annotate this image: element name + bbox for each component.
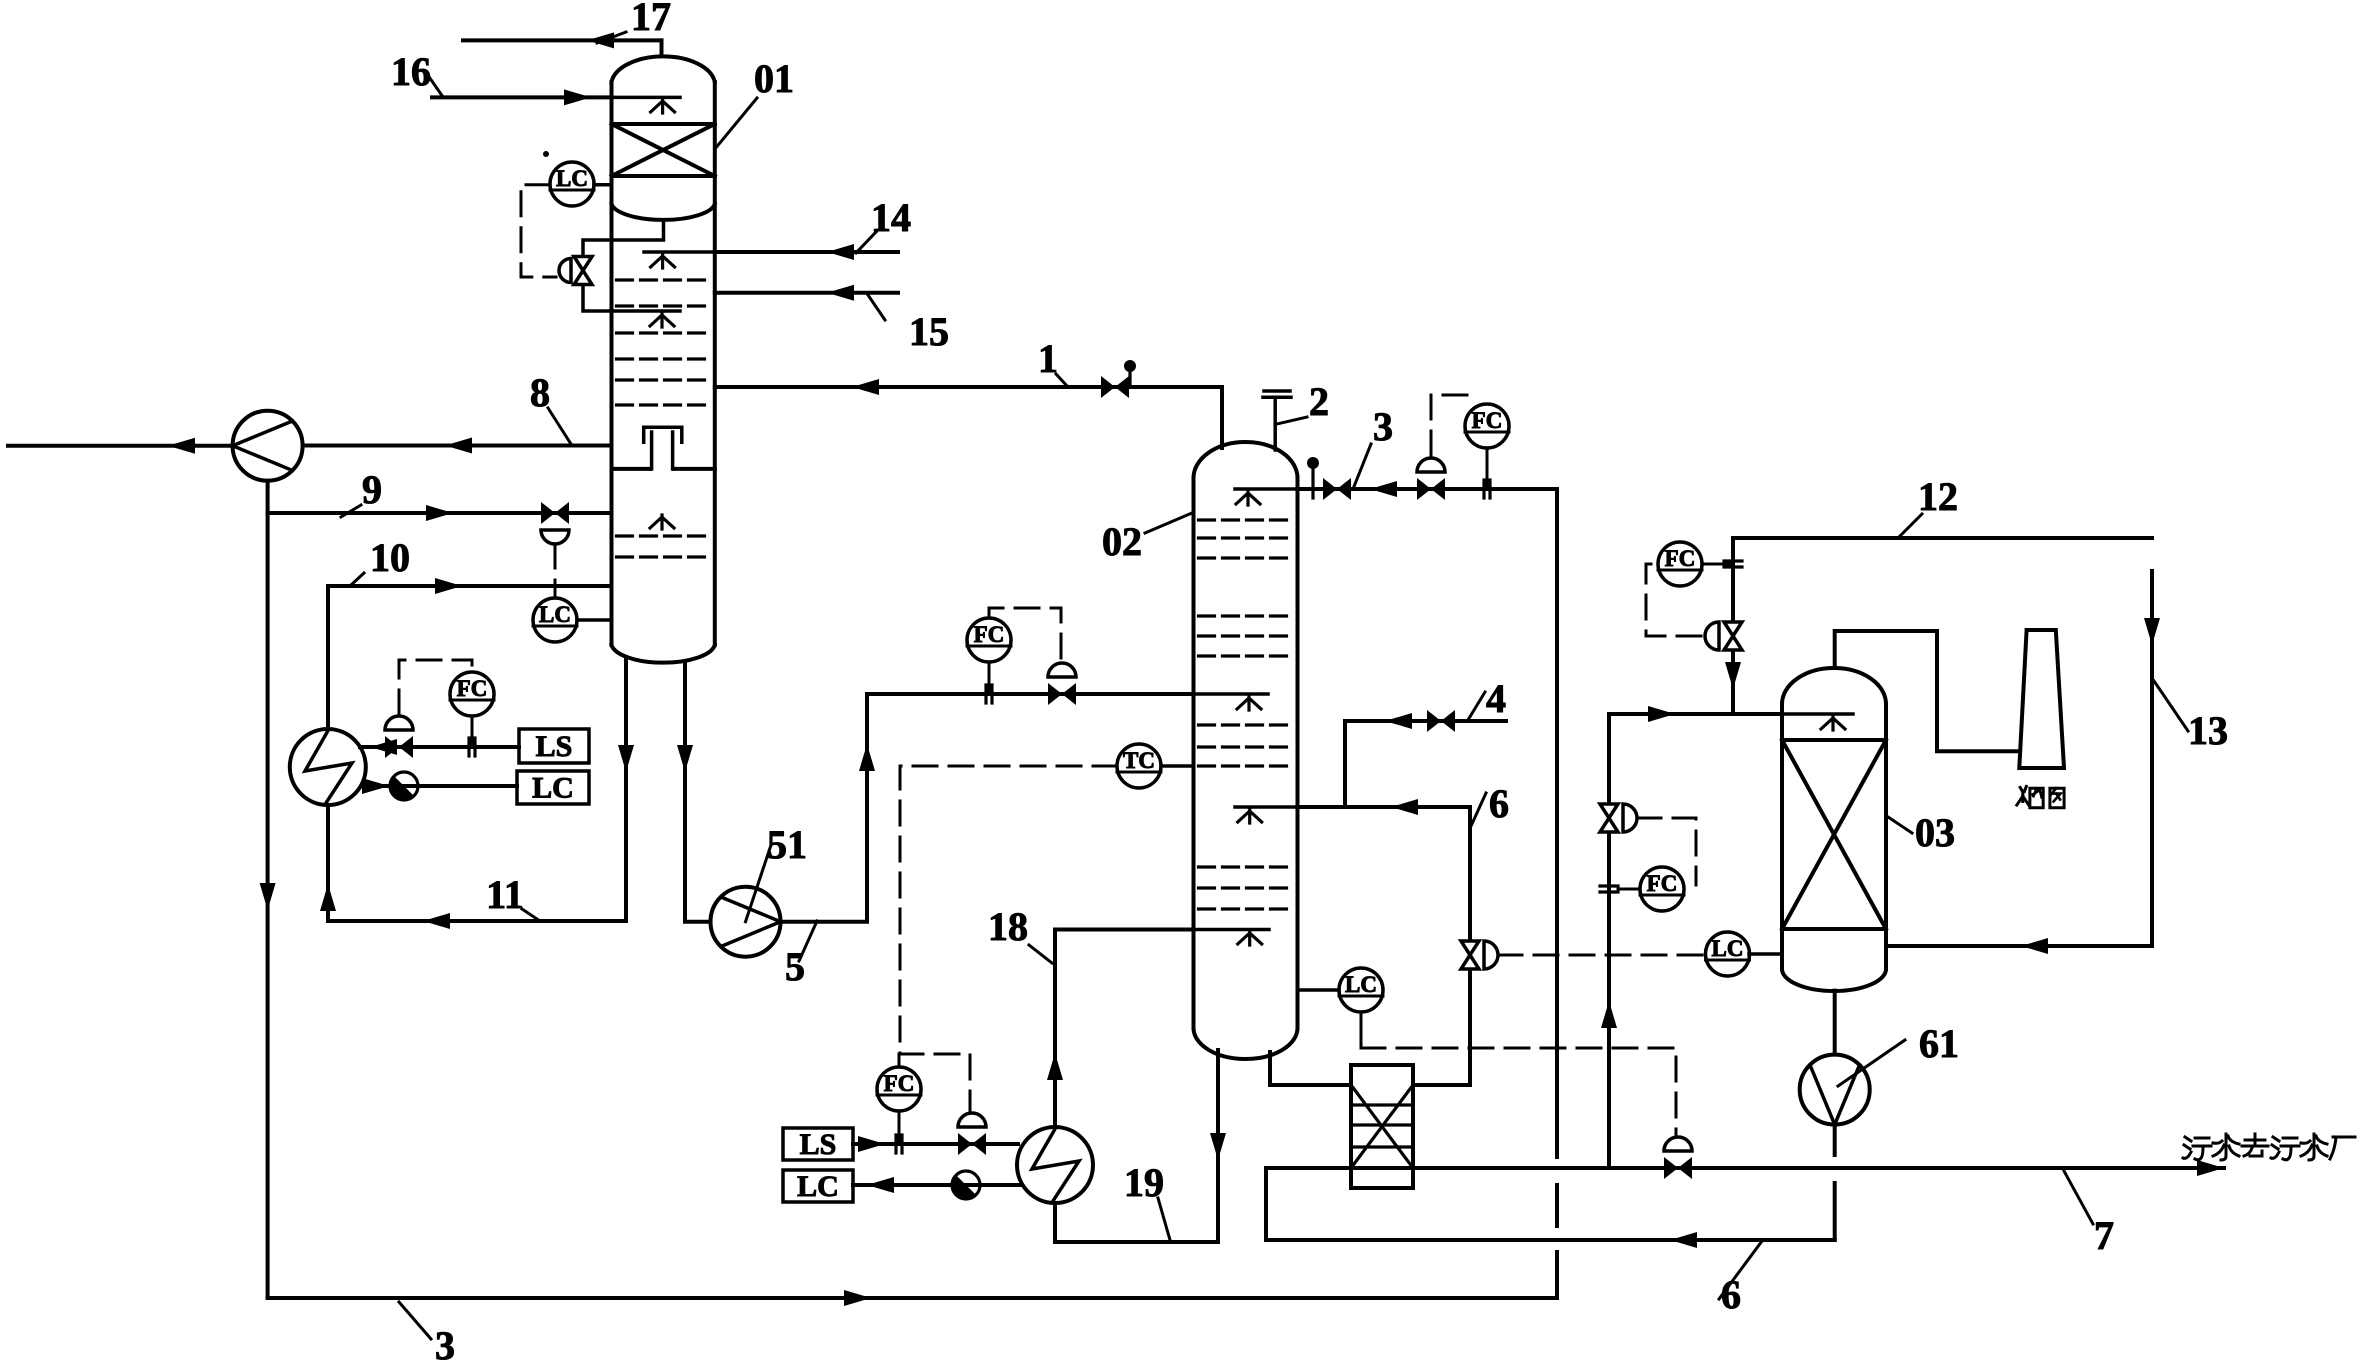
column 01 top spray nozzle bbox=[651, 99, 675, 113]
control valve on line 9 bbox=[541, 502, 569, 524]
wire line 12 bbox=[1733, 536, 2152, 540]
svg-text:7: 7 bbox=[2094, 1213, 2114, 1258]
svg-text:6: 6 bbox=[1489, 781, 1509, 826]
svg-text:FC: FC bbox=[884, 1071, 915, 1096]
dome actuator valve3 bbox=[1417, 458, 1445, 472]
pump P1 reflux pump bbox=[233, 411, 303, 481]
column 02 tray 9 (dashed) bbox=[1199, 764, 1293, 767]
svg-text:2: 2 bbox=[1309, 379, 1329, 424]
label 14 bbox=[856, 195, 911, 253]
box LS for E2 bbox=[783, 1128, 853, 1161]
svg-text:13: 13 bbox=[2188, 708, 2228, 753]
wire line 7 wastewater run bbox=[1266, 1166, 2224, 1170]
flow controller FC12 bbox=[1658, 542, 1702, 586]
column 02 tray 8 (dashed) bbox=[1199, 745, 1293, 748]
column 02 mid distributor bbox=[1194, 692, 1269, 696]
arrow condensate E2 bbox=[867, 1177, 894, 1193]
column 01 tray 8 (dashed) bbox=[617, 555, 710, 558]
wire valve12 drop leg bbox=[1731, 538, 1735, 714]
orifice tick line5 bbox=[986, 685, 992, 703]
flow controller FC1 bbox=[450, 672, 494, 716]
column 02 tray 11 (dashed) bbox=[1199, 886, 1293, 889]
dome actuator on steam valve E1 bbox=[385, 716, 413, 730]
column 02 bottom head bbox=[1194, 1028, 1298, 1059]
steam control valve E1 bbox=[385, 736, 413, 758]
hand valve on line 1 bbox=[1101, 376, 1129, 398]
label 9 bbox=[341, 467, 382, 517]
label 02 bbox=[1102, 513, 1192, 564]
wire FC riser stem bbox=[1618, 888, 1640, 891]
wire line 6 return from pump61 bbox=[1266, 1238, 1835, 1242]
spray line 6 feed bbox=[1238, 809, 1262, 823]
spray in reactor bbox=[1821, 716, 1845, 730]
wire FC3 stem bbox=[1486, 448, 1489, 489]
arrow on line 17 bbox=[587, 32, 614, 48]
spray below line 9 inside column bbox=[650, 515, 674, 529]
orifice tick line3 bbox=[1484, 480, 1490, 498]
arrow up into E1 bbox=[320, 884, 336, 911]
wire line 9 bbox=[268, 511, 612, 515]
level controller LC2 on column 01 bbox=[533, 598, 577, 642]
wire line 6 into column bbox=[1298, 805, 1471, 809]
column 01 shell walls bbox=[612, 82, 715, 645]
svg-text:16: 16 bbox=[391, 49, 431, 94]
wire line 18 riser bbox=[1055, 930, 1194, 1128]
reactor 03 top dome bbox=[1782, 668, 1886, 704]
column 01 tray 2 (dashed) bbox=[617, 304, 710, 307]
flow controller FC2 reboiler bbox=[877, 1067, 921, 1111]
reflux pipe from collector bbox=[583, 221, 664, 254]
wire line 3 into column 02 bbox=[1298, 487, 1558, 491]
column 01 packing bed with X bbox=[612, 124, 715, 176]
arrow down left leg bbox=[618, 745, 634, 772]
label 03 bbox=[1888, 810, 1955, 855]
svg-text:03: 03 bbox=[1915, 810, 1955, 855]
wire line 10 reboiler return bbox=[328, 586, 612, 729]
vent stem with ball on line 1 bbox=[1124, 360, 1136, 387]
column 01 tray 5 (dashed) bbox=[617, 378, 710, 381]
svg-text:LS: LS bbox=[536, 730, 573, 763]
wire FC12 stem bbox=[1702, 563, 1733, 566]
wire line 1 (column02 overhead to column01) bbox=[715, 387, 1222, 448]
label 51 bbox=[746, 822, 808, 922]
level controller LC1 on column 01 bbox=[550, 162, 594, 206]
wire reactor bottoms to pump61 bbox=[1833, 991, 1837, 1054]
column 02 tray 10 (dashed) bbox=[1199, 865, 1293, 868]
label 18 bbox=[988, 904, 1052, 963]
control valve line 5 bbox=[1048, 683, 1076, 705]
dashed signal valve9 to LC2 bbox=[554, 544, 557, 597]
control valve line 12 leg bbox=[1724, 622, 1742, 650]
column 02 tray 5 (dashed) bbox=[1199, 634, 1293, 637]
pump 61 reactor bottoms pump bbox=[1800, 1055, 1870, 1125]
arrow up line 18 bbox=[1047, 1053, 1063, 1080]
control valve line 3 bbox=[1417, 478, 1445, 500]
svg-text:11: 11 bbox=[486, 872, 524, 917]
wire line 7 start elbow bbox=[1264, 1168, 1268, 1240]
svg-text:FC: FC bbox=[1647, 871, 1678, 896]
reactor 03 packing bed bbox=[1782, 740, 1886, 929]
box LC for E1 bbox=[517, 771, 589, 805]
text wushui qu wushuichang bbox=[2183, 1134, 2355, 1160]
column 02 lower distributor bbox=[1235, 805, 1298, 809]
label 3 top bbox=[1353, 404, 1393, 489]
column 01 tray 7 (dashed) bbox=[617, 534, 710, 537]
arrow on line 3 top bbox=[1370, 481, 1397, 497]
label 12 bbox=[1898, 474, 1958, 538]
wire FC2 stem to orifice bbox=[898, 1111, 901, 1144]
wire FC2 stem up bbox=[898, 1054, 901, 1067]
reflux pipe to distributor bbox=[583, 288, 612, 312]
steam trap half ball E2 bbox=[952, 1171, 980, 1199]
wire reboiler E1 bottom leg bbox=[326, 805, 330, 921]
label 61 bbox=[1838, 1021, 1959, 1086]
column 01 tray 6 (dashed) bbox=[617, 403, 710, 406]
column 02 tray 7 (dashed) bbox=[1199, 723, 1293, 726]
arrow on line 14 bbox=[827, 244, 854, 260]
wire line 19 bottoms to reboiler bbox=[1055, 1050, 1218, 1242]
column 01 tray 3 (dashed) bbox=[617, 331, 710, 334]
svg-text:LC: LC bbox=[556, 166, 588, 191]
hand valve line 4 bbox=[1427, 710, 1455, 732]
svg-text:TC: TC bbox=[1123, 748, 1155, 773]
column 02 shell walls bbox=[1194, 478, 1298, 1028]
arrow up riser 1609 bbox=[1601, 1001, 1617, 1028]
column 01 chimney riser bbox=[652, 432, 673, 469]
control valve on line 6 riser bbox=[1461, 941, 1479, 969]
column 02 reboiler return distributor bbox=[1194, 928, 1270, 932]
column 01 reflux internal pipe bbox=[612, 309, 681, 313]
svg-text:15: 15 bbox=[909, 309, 949, 354]
wire line 11 bbox=[328, 919, 626, 923]
svg-text:LS: LS bbox=[800, 1128, 837, 1161]
dashed signal FC1 loop bbox=[399, 660, 472, 714]
svg-text:51: 51 bbox=[767, 822, 807, 867]
column 01 top dome bbox=[612, 56, 715, 82]
arrow down line 13 bbox=[2144, 618, 2160, 645]
box LS for E1 bbox=[519, 729, 589, 763]
arrow steam into E1 bbox=[370, 739, 397, 755]
svg-text:LC: LC bbox=[797, 1170, 839, 1203]
steam line LS to E1 bbox=[360, 745, 519, 749]
column 01 top distributor bbox=[612, 96, 681, 100]
steam control valve E2 bbox=[958, 1133, 986, 1155]
arrow steam E2 bbox=[858, 1136, 885, 1152]
reflux control valve bbox=[574, 257, 592, 285]
wire FC1 stem to orifice bbox=[471, 716, 474, 747]
pump 51 column02 feed pump bbox=[711, 887, 781, 957]
column 01 tray 1 (dashed) bbox=[617, 278, 710, 281]
dome actuator riser valve bbox=[1623, 804, 1637, 832]
svg-text:LC: LC bbox=[532, 772, 574, 805]
arrow on line 6 feed bbox=[1391, 799, 1418, 815]
flow controller FC riser bbox=[1640, 867, 1684, 911]
column 02 top distributor bbox=[1235, 487, 1298, 491]
svg-text:FC: FC bbox=[457, 676, 488, 701]
svg-text:17: 17 bbox=[631, 0, 671, 39]
riser of line 3 (with crossing gaps) bbox=[1555, 489, 1559, 1298]
column 01 feed-14 internal pipe bbox=[644, 250, 715, 254]
label 3 bottom bbox=[399, 1302, 455, 1368]
dashed TC signal bbox=[900, 766, 1117, 1112]
vent line 2 with flame arrestor bbox=[1263, 391, 1291, 450]
dome actuator valve12 bbox=[1705, 622, 1719, 650]
control valve on riser bbox=[1600, 804, 1618, 832]
wire LC reactor tap bbox=[1749, 952, 1782, 956]
sample point ball on line 3 bbox=[1307, 457, 1319, 498]
reactor 03 bottom head bbox=[1782, 969, 1886, 991]
column 02 tray 2 (dashed) bbox=[1199, 536, 1293, 539]
wire LC tap column02 bbox=[1298, 988, 1340, 992]
spray reboiler return bbox=[1238, 931, 1262, 945]
svg-text:01: 01 bbox=[754, 56, 794, 101]
reactor internal feed pipe bbox=[1782, 712, 1853, 716]
arrow on line 15 bbox=[827, 285, 854, 301]
svg-text:LC: LC bbox=[1712, 936, 1744, 961]
arrow down line 19 bbox=[1210, 1133, 1226, 1160]
arrow on line 7 end bbox=[2197, 1160, 2224, 1176]
arrow on reactor feed bbox=[1648, 706, 1675, 722]
label 16 bbox=[391, 49, 443, 97]
wire P1 discharge to left edge bbox=[8, 444, 233, 448]
svg-text:9: 9 bbox=[362, 467, 382, 512]
wire line 6 riser bbox=[1468, 807, 1472, 1085]
column 02 top dome bbox=[1194, 442, 1298, 478]
wire column02 bottoms to interchanger bbox=[1270, 1052, 1351, 1085]
wire line 14 bbox=[715, 250, 898, 254]
dashed signal LC reactor to valve6 bbox=[1498, 954, 1705, 957]
column 01 liquid collector bowl bbox=[612, 204, 715, 220]
arrow on line 3 bbox=[844, 1290, 871, 1306]
hand valve line 3 bbox=[1323, 478, 1351, 500]
orifice tick E2 bbox=[896, 1135, 902, 1153]
label 7 bbox=[2064, 1171, 2114, 1258]
dome actuator valve7 bbox=[1664, 1137, 1692, 1151]
label 10 bbox=[350, 535, 410, 586]
label 13 bbox=[2154, 681, 2228, 753]
orifice tick E1 steam bbox=[469, 738, 475, 756]
label 1 bbox=[1038, 336, 1068, 387]
label 8 bbox=[530, 370, 571, 444]
wire interchanger to line 6 riser bbox=[1413, 1083, 1470, 1087]
svg-text:12: 12 bbox=[1918, 474, 1958, 519]
svg-text:FC: FC bbox=[974, 622, 1005, 647]
dashed signal LC1 to reflux valve bbox=[521, 185, 556, 277]
column 01 left bottoms leg bbox=[624, 659, 628, 921]
wire line 4 bbox=[1345, 721, 1506, 807]
wire LC2 tap bbox=[577, 618, 612, 622]
arrow on line 8 bbox=[445, 438, 472, 454]
arrow down on P1 leg bbox=[260, 883, 276, 910]
arrow into reactor bbox=[2021, 938, 2048, 954]
label 01 bbox=[717, 56, 795, 147]
wire reactor offgas to chimney bbox=[1835, 631, 2018, 751]
column 02 tray 4 (dashed) bbox=[1199, 614, 1293, 617]
column 01 tray 4 (dashed) bbox=[617, 357, 710, 360]
arrow down valve12 leg bbox=[1725, 662, 1741, 689]
box LC for E2 bbox=[783, 1170, 853, 1203]
spray for line5 feed in column02 bbox=[1237, 696, 1261, 710]
column 01 chimney hat bbox=[644, 427, 682, 442]
column 01 spray on reflux return bbox=[650, 313, 674, 327]
dome actuator valve6 bbox=[1484, 941, 1498, 969]
wire line 5 riser bbox=[781, 694, 1194, 922]
column 02 tray 12 (dashed) bbox=[1199, 907, 1293, 910]
level controller LC column02 bbox=[1339, 968, 1383, 1012]
heat exchanger E1 reboiler bbox=[290, 729, 366, 805]
svg-text:4: 4 bbox=[1486, 676, 1506, 721]
flow controller FC3 bbox=[1465, 404, 1509, 448]
svg-text:02: 02 bbox=[1102, 519, 1142, 564]
dome actuator below valve 9 bbox=[541, 530, 569, 544]
wire LC stem down bbox=[1360, 1012, 1363, 1045]
wire TC tap bbox=[1161, 764, 1194, 768]
level controller LC reactor bbox=[1706, 932, 1750, 976]
orifice tick riser bbox=[1600, 886, 1618, 892]
temperature controller TC bbox=[1117, 744, 1161, 788]
wire LC1 tap to column bbox=[594, 183, 612, 187]
dashed signal FC5 to valve bbox=[989, 608, 1061, 661]
arrow condensate E1 bbox=[362, 778, 389, 794]
heat exchanger E2 reboiler column02 bbox=[1017, 1127, 1093, 1203]
svg-text:3: 3 bbox=[1373, 404, 1393, 449]
label 6 upper bbox=[1471, 781, 1509, 826]
wire line 16 feed bbox=[432, 95, 612, 99]
dome actuator steam valve E2 bbox=[958, 1113, 986, 1127]
svg-text:FC: FC bbox=[1665, 546, 1696, 571]
arrow down right leg bbox=[677, 745, 693, 772]
arrow on P1 discharge bbox=[168, 438, 195, 454]
svg-text:61: 61 bbox=[1919, 1021, 1959, 1066]
orifice tick line12 leg bbox=[1724, 561, 1742, 567]
label 5 bbox=[785, 921, 817, 989]
svg-text:LC: LC bbox=[539, 602, 571, 627]
dashed LC02 signal to line7 valve bbox=[1361, 1048, 1676, 1136]
wire line 3 bottom run bbox=[268, 1296, 1557, 1300]
condensate line E2 bbox=[853, 1183, 1022, 1187]
svg-text:18: 18 bbox=[988, 904, 1028, 949]
steam trap half ball E1 bbox=[390, 772, 418, 800]
column 01 right bottoms leg bbox=[683, 663, 687, 921]
svg-text:14: 14 bbox=[871, 195, 911, 240]
column 02 tray 6 (dashed) bbox=[1199, 654, 1293, 657]
condensate line E1 to LC box bbox=[362, 784, 517, 788]
wire P1 down leg bbox=[266, 481, 270, 1298]
column 01 bottom head bbox=[612, 645, 715, 663]
arrow up on line 5 bbox=[859, 744, 875, 771]
reflux valve actuator dome bbox=[559, 259, 571, 283]
label 2 bbox=[1277, 379, 1329, 424]
column 02 tray 1 (dashed) bbox=[1199, 518, 1293, 521]
svg-text:LC: LC bbox=[1345, 972, 1377, 997]
wire FC5 stem bbox=[988, 662, 991, 694]
column 01 spray below line 14 bbox=[651, 254, 675, 268]
arrow on line 1 bbox=[852, 379, 879, 395]
stray dot bbox=[543, 151, 549, 157]
label 17 bbox=[597, 0, 671, 43]
svg-text:FC: FC bbox=[1472, 408, 1503, 433]
arrow on line 4 bbox=[1385, 713, 1412, 729]
wire pump51 suction bbox=[685, 920, 711, 924]
dashed signal FC12 bbox=[1646, 564, 1701, 636]
arrow on line 10 bbox=[435, 578, 462, 594]
label 4 bbox=[1468, 676, 1506, 721]
label 11 bbox=[486, 872, 540, 921]
arrow on line 9 bbox=[426, 505, 453, 521]
wire line 8 bottoms draw bbox=[303, 444, 612, 448]
label 15 bbox=[868, 295, 949, 354]
wire reactor bottom return bbox=[1886, 944, 2152, 948]
control valve line 7 bbox=[1664, 1157, 1692, 1179]
column 02 tray 3 (dashed) bbox=[1199, 556, 1293, 559]
column 02 top spray bbox=[1236, 491, 1260, 505]
wire reactor feed line bbox=[1609, 712, 1782, 716]
text yancong chimney label bbox=[2017, 786, 2064, 807]
column 01 chimney tray floor bbox=[612, 467, 715, 471]
steam line LS2 to E2 bbox=[853, 1142, 1018, 1146]
dashed signal FC3 to valve bbox=[1431, 395, 1478, 455]
svg-text:10: 10 bbox=[370, 535, 410, 580]
label 6 lower bbox=[1719, 1241, 1762, 1317]
wire line 15 bbox=[715, 291, 898, 295]
interchanger heat exchanger block bbox=[1351, 1065, 1413, 1188]
arrow on line 6 return bbox=[1670, 1232, 1697, 1248]
wire line 13 vertical bbox=[2150, 571, 2154, 946]
svg-text:3: 3 bbox=[435, 1323, 455, 1368]
arrow on line 11 bbox=[423, 913, 450, 929]
wire line 17 overhead vapour bbox=[463, 40, 662, 55]
wire riser to reactor feed bbox=[1607, 714, 1611, 1168]
flow controller FC on line 5 bbox=[967, 618, 1011, 662]
label 19 bbox=[1124, 1160, 1170, 1240]
arrow on line 16 bbox=[564, 89, 591, 105]
chimney stack bbox=[2019, 630, 2064, 768]
dashed signal riser valve FC bbox=[1637, 818, 1696, 885]
wire pump61 discharge (crossing line7) bbox=[1833, 1125, 1837, 1240]
reactor 03 shell bbox=[1782, 704, 1886, 969]
dome actuator valve5 bbox=[1048, 663, 1076, 677]
